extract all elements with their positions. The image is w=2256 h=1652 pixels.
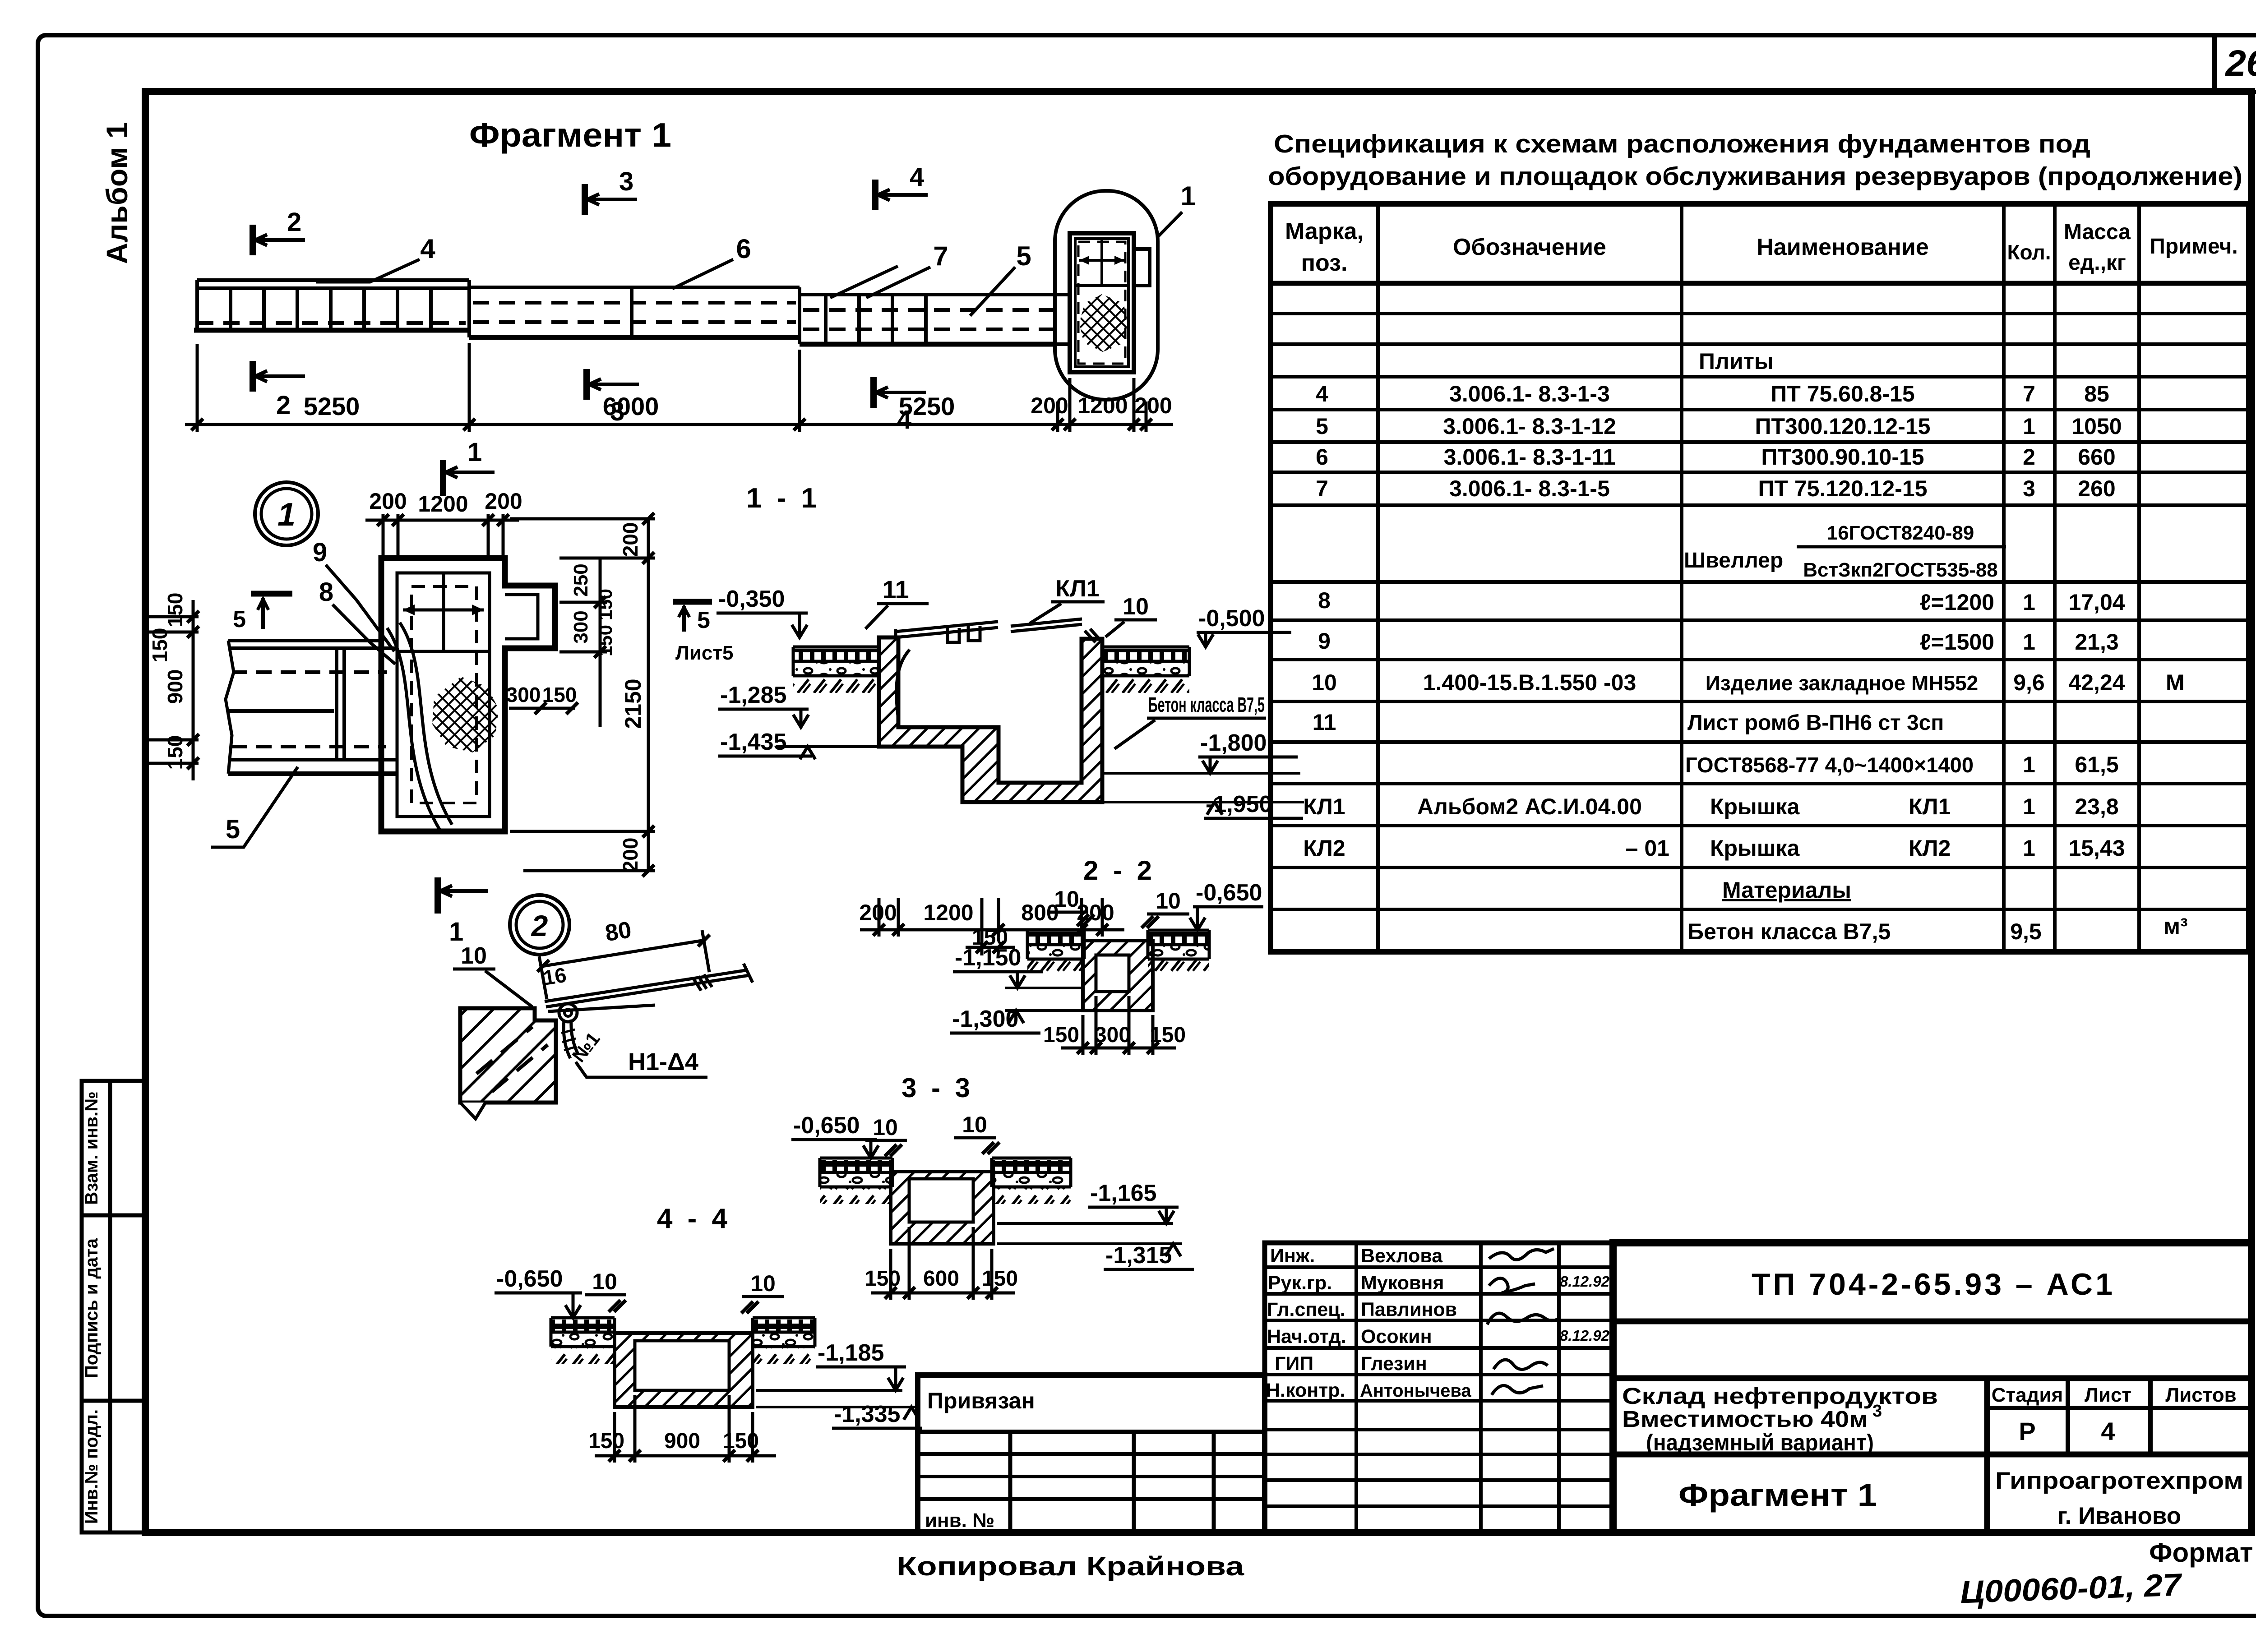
svg-text:9,5: 9,5	[2010, 919, 2042, 944]
table header texts	[1285, 218, 2238, 276]
page number box 26	[2214, 35, 2256, 92]
svg-text:ГИП: ГИП	[1275, 1353, 1313, 1375]
signatures squiggles	[1487, 1249, 1558, 1395]
svg-text:9,6: 9,6	[2013, 670, 2045, 695]
specification table grid	[1271, 204, 2249, 952]
svg-text:Швеллер: Швеллер	[1684, 549, 1783, 572]
section 3-3 right floor band	[992, 1158, 1071, 1204]
svg-text:8: 8	[1318, 588, 1331, 613]
svg-text:1: 1	[449, 917, 463, 946]
svg-text:300: 300	[570, 610, 592, 643]
svg-text:Склад нефтепродуктов: Склад нефтепродуктов	[1622, 1383, 1938, 1409]
detail top dimensions	[365, 514, 519, 558]
svg-text:-0,500: -0,500	[1198, 605, 1265, 632]
svg-text:2150: 2150	[620, 678, 646, 729]
svg-text:Фрагмент 1: Фрагмент 1	[1678, 1477, 1877, 1513]
section 2-2 concrete pit	[1083, 941, 1153, 1011]
svg-text:г. Иваново: г. Иваново	[2057, 1503, 2181, 1529]
svg-text:оборудование и площадок обс: оборудование и площадок обслуживания рез…	[1268, 162, 2242, 191]
svg-text:инв. №: инв. №	[925, 1509, 994, 1532]
svg-text:2: 2	[276, 391, 291, 420]
section 1-1 concrete pit	[879, 637, 1102, 802]
svg-text:3: 3	[619, 167, 633, 196]
svg-text:3: 3	[1872, 1402, 1882, 1421]
section 4-4 concrete pit	[615, 1333, 753, 1407]
svg-text:Н.контр.: Н.контр.	[1266, 1380, 1345, 1401]
section 1-1 bottom dims	[860, 898, 1124, 955]
svg-text:61,5: 61,5	[2075, 752, 2118, 777]
left stamp boxes	[82, 1081, 146, 1532]
svg-text:Материалы: Материалы	[1722, 877, 1851, 903]
svg-text:7: 7	[2023, 381, 2035, 406]
svg-text:10: 10	[873, 1115, 898, 1140]
svg-text:26: 26	[2224, 43, 2256, 84]
svg-text:ПТ300.90.10-15: ПТ300.90.10-15	[1761, 444, 1924, 470]
svg-text:ВстЗкп2ГОСТ535-88: ВстЗкп2ГОСТ535-88	[1803, 559, 1998, 581]
svg-text:ГОСТ8568-77 4,0~1400×1400: ГОСТ8568-77 4,0~1400×1400	[1685, 753, 1974, 777]
section marker 2 bottom	[253, 361, 305, 392]
crosshatch blob in oval	[1079, 294, 1128, 352]
svg-text:1 - 1: 1 - 1	[746, 483, 820, 514]
svg-text:3: 3	[610, 397, 624, 426]
svg-text:5: 5	[1316, 414, 1328, 439]
svg-text:15,43: 15,43	[2068, 835, 2125, 861]
svg-text:Павлинов: Павлинов	[1361, 1299, 1457, 1320]
svg-text:ℓ=1200: ℓ=1200	[1920, 590, 1994, 615]
svg-text:150: 150	[595, 625, 616, 656]
svg-text:3 - 3: 3 - 3	[901, 1073, 974, 1103]
detail 2 circle	[510, 895, 569, 955]
svg-text:Альбом 1: Альбом 1	[100, 122, 134, 264]
section 3-3 left floor band	[820, 1158, 892, 1204]
detail 2 block	[460, 1008, 556, 1103]
section marker 3 top	[585, 184, 637, 215]
svg-text:Крышка: Крышка	[1710, 835, 1800, 861]
svg-text:1: 1	[2023, 629, 2035, 655]
walkway strip into detail	[226, 641, 397, 774]
plan strip right band	[800, 287, 1070, 344]
table rows	[1303, 349, 2187, 944]
strip bottom dimension line	[185, 343, 1173, 432]
plan strip left band	[194, 280, 469, 330]
svg-text:-1,800: -1,800	[1200, 730, 1267, 756]
svg-text:5: 5	[233, 606, 246, 632]
svg-text:660: 660	[2078, 444, 2115, 470]
svg-text:6: 6	[1316, 444, 1328, 470]
svg-text:Стадия: Стадия	[1992, 1384, 2063, 1406]
svg-text:4: 4	[910, 162, 924, 192]
svg-text:Масса: Масса	[2064, 220, 2131, 244]
svg-text:23,8: 23,8	[2075, 794, 2118, 819]
strip item leaders	[316, 212, 1182, 316]
svg-text:Антонычева: Антонычева	[1360, 1381, 1471, 1401]
svg-text:11: 11	[1313, 710, 1336, 735]
section marker 3 bottom	[587, 369, 639, 400]
svg-text:200: 200	[485, 489, 522, 514]
svg-text:Н1-Δ4: Н1-Δ4	[628, 1048, 698, 1075]
svg-text:Взам. инв.№: Взам. инв.№	[82, 1091, 102, 1204]
section 1-1 cover plate 11	[896, 619, 1101, 720]
detail plan outline	[381, 558, 555, 831]
svg-text:4: 4	[2101, 1417, 2115, 1445]
svg-text:-0,650: -0,650	[1196, 880, 1262, 906]
svg-text:4: 4	[897, 405, 911, 434]
svg-text:6: 6	[736, 234, 751, 264]
svg-text:10: 10	[592, 1269, 617, 1294]
svg-text:-0,350: -0,350	[718, 586, 785, 612]
title block frame	[1613, 1243, 2251, 1532]
section marker 4 top	[875, 180, 928, 210]
crosshatch blob detail	[432, 677, 499, 752]
svg-text:150: 150	[723, 1429, 759, 1453]
section 2-2 bottom dims	[1061, 996, 1176, 1055]
svg-text:5250: 5250	[304, 392, 360, 420]
svg-text:2: 2	[2023, 444, 2035, 470]
privyazan block	[918, 1375, 1265, 1532]
svg-text:Обозначение: Обозначение	[1453, 234, 1606, 260]
section 1-1 left list5 marker	[673, 599, 712, 605]
svg-text:150: 150	[163, 735, 187, 770]
svg-text:10: 10	[1312, 670, 1337, 695]
svg-text:200: 200	[369, 489, 407, 514]
signature table	[1265, 1243, 1613, 1532]
svg-text:150: 150	[163, 593, 187, 628]
svg-text:КЛ2: КЛ2	[1303, 835, 1345, 861]
svg-text:Подпись и дата: Подпись и дата	[82, 1238, 102, 1378]
svg-text:КЛ1: КЛ1	[1055, 576, 1099, 602]
svg-text:ℓ=1500: ℓ=1500	[1920, 629, 1994, 655]
svg-text:1200: 1200	[923, 900, 973, 925]
svg-text:Формат А3: Формат А3	[2149, 1537, 2256, 1568]
svg-text:16ГОСТ8240-89: 16ГОСТ8240-89	[1827, 522, 1974, 544]
svg-text:Изделие закладное МН552: Изделие закладное МН552	[1706, 671, 1979, 695]
svg-text:ПТ300.120.12-15: ПТ300.120.12-15	[1755, 414, 1931, 439]
svg-text:Фрагмент 1: Фрагмент 1	[469, 116, 671, 154]
svg-text:150: 150	[595, 589, 616, 620]
svg-text:-1,150: -1,150	[955, 945, 1021, 971]
svg-text:10: 10	[461, 943, 487, 969]
svg-text:Глезин: Глезин	[1361, 1353, 1427, 1375]
detail left dims	[144, 600, 199, 780]
svg-text:Листов: Листов	[2165, 1384, 2236, 1406]
svg-text:поз.: поз.	[1301, 250, 1348, 276]
svg-text:-1,185: -1,185	[818, 1340, 884, 1366]
svg-text:1200: 1200	[1077, 393, 1128, 418]
svg-text:3.006.1- 8.3-1-5: 3.006.1- 8.3-1-5	[1449, 476, 1610, 501]
svg-text:КЛ2: КЛ2	[1909, 835, 1951, 861]
pit plan in oval	[1070, 233, 1150, 372]
svg-text:1: 1	[2023, 794, 2035, 819]
section marker 4 bottom	[874, 377, 926, 408]
svg-text:1: 1	[2023, 590, 2035, 615]
section 2-2 left floor band	[1027, 930, 1084, 976]
svg-text:1: 1	[277, 497, 296, 533]
svg-text:900: 900	[163, 669, 187, 704]
strip segment inside oval	[1055, 295, 1070, 344]
marker 5 right / List 5	[673, 599, 712, 605]
svg-text:150: 150	[1043, 1023, 1079, 1047]
svg-text:-1,285: -1,285	[720, 682, 786, 708]
svg-text:21,3: 21,3	[2075, 629, 2118, 655]
svg-text:8: 8	[319, 577, 333, 607]
svg-text:7: 7	[1316, 476, 1328, 501]
svg-text:Нач.отд.: Нач.отд.	[1267, 1326, 1346, 1347]
svg-text:7: 7	[933, 241, 948, 271]
svg-text:150: 150	[1150, 1023, 1186, 1047]
svg-text:150: 150	[588, 1429, 624, 1453]
svg-text:16: 16	[541, 963, 568, 990]
svg-text:3: 3	[2023, 476, 2035, 501]
svg-text:-1,435: -1,435	[720, 729, 786, 755]
svg-text:900: 900	[664, 1429, 700, 1453]
svg-text:Гипроагротехпром: Гипроагротехпром	[1995, 1467, 2243, 1494]
svg-text:150: 150	[542, 683, 577, 706]
svg-text:ед.,кг: ед.,кг	[2068, 251, 2126, 275]
svg-text:– 01: – 01	[1626, 835, 1669, 861]
section marker 1 above detail	[443, 460, 495, 496]
marker 1 below detail	[438, 877, 488, 914]
svg-text:4: 4	[420, 234, 435, 264]
svg-text:200: 200	[619, 522, 642, 557]
svg-text:Привязан: Привязан	[927, 1388, 1035, 1413]
svg-text:-0,650: -0,650	[793, 1112, 860, 1139]
svg-text:-0,650: -0,650	[496, 1266, 563, 1292]
svg-text:5: 5	[226, 815, 240, 844]
svg-text:ПТ 75.60.8-15: ПТ 75.60.8-15	[1771, 381, 1914, 406]
svg-text:10: 10	[1123, 594, 1149, 620]
svg-text:1: 1	[2023, 414, 2035, 439]
svg-text:8.12.92: 8.12.92	[1560, 1273, 1610, 1290]
svg-text:Р: Р	[2019, 1417, 2035, 1445]
svg-text:3.006.1- 8.3-1-12: 3.006.1- 8.3-1-12	[1443, 414, 1616, 439]
svg-text:10: 10	[750, 1271, 776, 1296]
svg-text:4: 4	[1316, 381, 1328, 406]
section marker 2 top	[253, 225, 305, 255]
wavy break lines	[387, 628, 440, 830]
svg-text:200: 200	[619, 838, 642, 872]
svg-text:2 - 2: 2 - 2	[1083, 855, 1156, 886]
svg-text:(надземный вариант): (надземный вариант)	[1646, 1430, 1874, 1455]
svg-text:200: 200	[1031, 393, 1068, 418]
svg-text:8.12.92: 8.12.92	[1560, 1327, 1610, 1344]
svg-text:200: 200	[859, 900, 897, 925]
svg-text:Бетон класса В7,5: Бетон класса В7,5	[1148, 693, 1265, 716]
svg-text:10: 10	[962, 1112, 987, 1137]
svg-text:17,04: 17,04	[2068, 590, 2125, 615]
svg-text:1: 1	[467, 438, 482, 467]
detail right dims	[510, 519, 655, 871]
svg-text:м³: м³	[2164, 914, 2188, 939]
svg-text:4 - 4: 4 - 4	[657, 1203, 731, 1234]
svg-text:3.006.1- 8.3-1-3: 3.006.1- 8.3-1-3	[1449, 381, 1610, 406]
svg-text:600: 600	[923, 1267, 959, 1291]
strip dimension texts	[304, 392, 1172, 420]
tank oval	[1055, 191, 1158, 400]
svg-text:Вместимостью 40м: Вместимостью 40м	[1622, 1406, 1868, 1432]
svg-text:10: 10	[1054, 886, 1079, 912]
svg-text:11: 11	[882, 575, 909, 604]
detail 2 dim 80	[542, 940, 705, 966]
svg-text:42,24: 42,24	[2068, 670, 2125, 695]
detail 1 circle	[255, 482, 318, 545]
svg-text:300: 300	[506, 683, 541, 706]
svg-text:Спецификация к схемам распо: Спецификация к схемам расположения фунда…	[1274, 129, 2090, 158]
svg-text:1.400-15.В.1.550 -03: 1.400-15.В.1.550 -03	[1423, 670, 1637, 695]
svg-text:Лист: Лист	[2085, 1384, 2131, 1406]
svg-text:Вехлова: Вехлова	[1361, 1245, 1443, 1267]
svg-text:Лист5: Лист5	[675, 642, 733, 664]
detail plan inner rect	[397, 573, 490, 817]
tab inner	[505, 595, 538, 639]
svg-text:ТП 704-2-65.93 – АС1: ТП 704-2-65.93 – АС1	[1752, 1267, 2115, 1301]
svg-text:5: 5	[1016, 241, 1031, 271]
detail inner right chain	[559, 558, 607, 727]
svg-text:300: 300	[1095, 1023, 1131, 1047]
svg-text:5: 5	[697, 607, 710, 633]
svg-text:Инв.№ подл.: Инв.№ подл.	[82, 1409, 102, 1524]
section 1-1 left floor band	[793, 647, 879, 693]
svg-text:КЛ1: КЛ1	[1909, 794, 1951, 819]
svg-text:1: 1	[2023, 752, 2035, 777]
svg-text:150: 150	[864, 1267, 901, 1291]
svg-text:Лист ромб В-ПН6 ст 3сп: Лист ромб В-ПН6 ст 3сп	[1687, 711, 1944, 735]
svg-text:Копировал Крайнова: Копировал Крайнова	[897, 1552, 1244, 1581]
svg-text:-1,335: -1,335	[834, 1401, 900, 1427]
svg-text:1200: 1200	[418, 491, 468, 517]
svg-text:80: 80	[603, 917, 633, 946]
svg-text:250: 250	[570, 563, 592, 596]
svg-text:-1,165: -1,165	[1090, 1180, 1156, 1206]
svg-text:Кол.: Кол.	[2007, 240, 2051, 264]
section 3-3 bottom dims	[871, 1227, 1015, 1300]
svg-text:200: 200	[1134, 393, 1172, 418]
section 4-4 right floor band	[753, 1318, 815, 1364]
section 1-1 right floor band	[1102, 647, 1189, 693]
svg-text:Плиты: Плиты	[1699, 349, 1774, 374]
svg-text:1: 1	[2023, 835, 2035, 861]
svg-text:1: 1	[1180, 181, 1195, 211]
svg-text:Бетон класса В7,5: Бетон класса В7,5	[1687, 919, 1891, 944]
svg-text:ПТ 75.120.12-15: ПТ 75.120.12-15	[1758, 476, 1927, 501]
marker 5 left	[251, 591, 292, 597]
svg-text:Альбом2 АС.И.04.00: Альбом2 АС.И.04.00	[1417, 794, 1642, 819]
section 4-4 left floor band	[551, 1318, 615, 1364]
svg-text:150: 150	[148, 628, 171, 663]
svg-text:КЛ1: КЛ1	[1303, 794, 1345, 819]
svg-text:Инж.: Инж.	[1270, 1245, 1315, 1267]
svg-text:-1,315: -1,315	[1105, 1242, 1172, 1269]
svg-text:2: 2	[287, 208, 301, 237]
svg-text:85: 85	[2084, 381, 2109, 406]
svg-text:1050: 1050	[2071, 414, 2122, 439]
svg-text:2: 2	[531, 909, 548, 942]
svg-text:3.006.1- 8.3-1-11: 3.006.1- 8.3-1-11	[1444, 444, 1616, 470]
svg-text:М: М	[2166, 670, 2185, 695]
svg-text:Наименование: Наименование	[1757, 234, 1929, 260]
svg-text:Крышка: Крышка	[1710, 794, 1800, 819]
svg-text:Муковня: Муковня	[1361, 1272, 1444, 1294]
svg-text:10: 10	[1156, 888, 1181, 914]
section 2-2 right floor band	[1148, 930, 1209, 976]
svg-text:Рук.гр.: Рук.гр.	[1268, 1272, 1332, 1294]
signature table texts	[1266, 1245, 1471, 1401]
svg-text:Примеч.: Примеч.	[2150, 235, 2238, 258]
svg-text:Осокин: Осокин	[1361, 1326, 1432, 1347]
svg-text:9: 9	[313, 538, 327, 567]
svg-text:Марка,: Марка,	[1285, 218, 1364, 245]
section 4-4 bottom dims	[595, 1395, 776, 1463]
svg-text:150: 150	[982, 1267, 1018, 1291]
svg-text:Гл.спец.: Гл.спец.	[1267, 1299, 1345, 1320]
svg-text:9: 9	[1318, 628, 1331, 654]
plan strip middle band	[469, 280, 800, 337]
pit mouth grid	[397, 573, 490, 651]
section 3-3 concrete pit	[891, 1172, 994, 1244]
detail 2 plate	[545, 964, 753, 1011]
svg-text:260: 260	[2078, 476, 2115, 501]
